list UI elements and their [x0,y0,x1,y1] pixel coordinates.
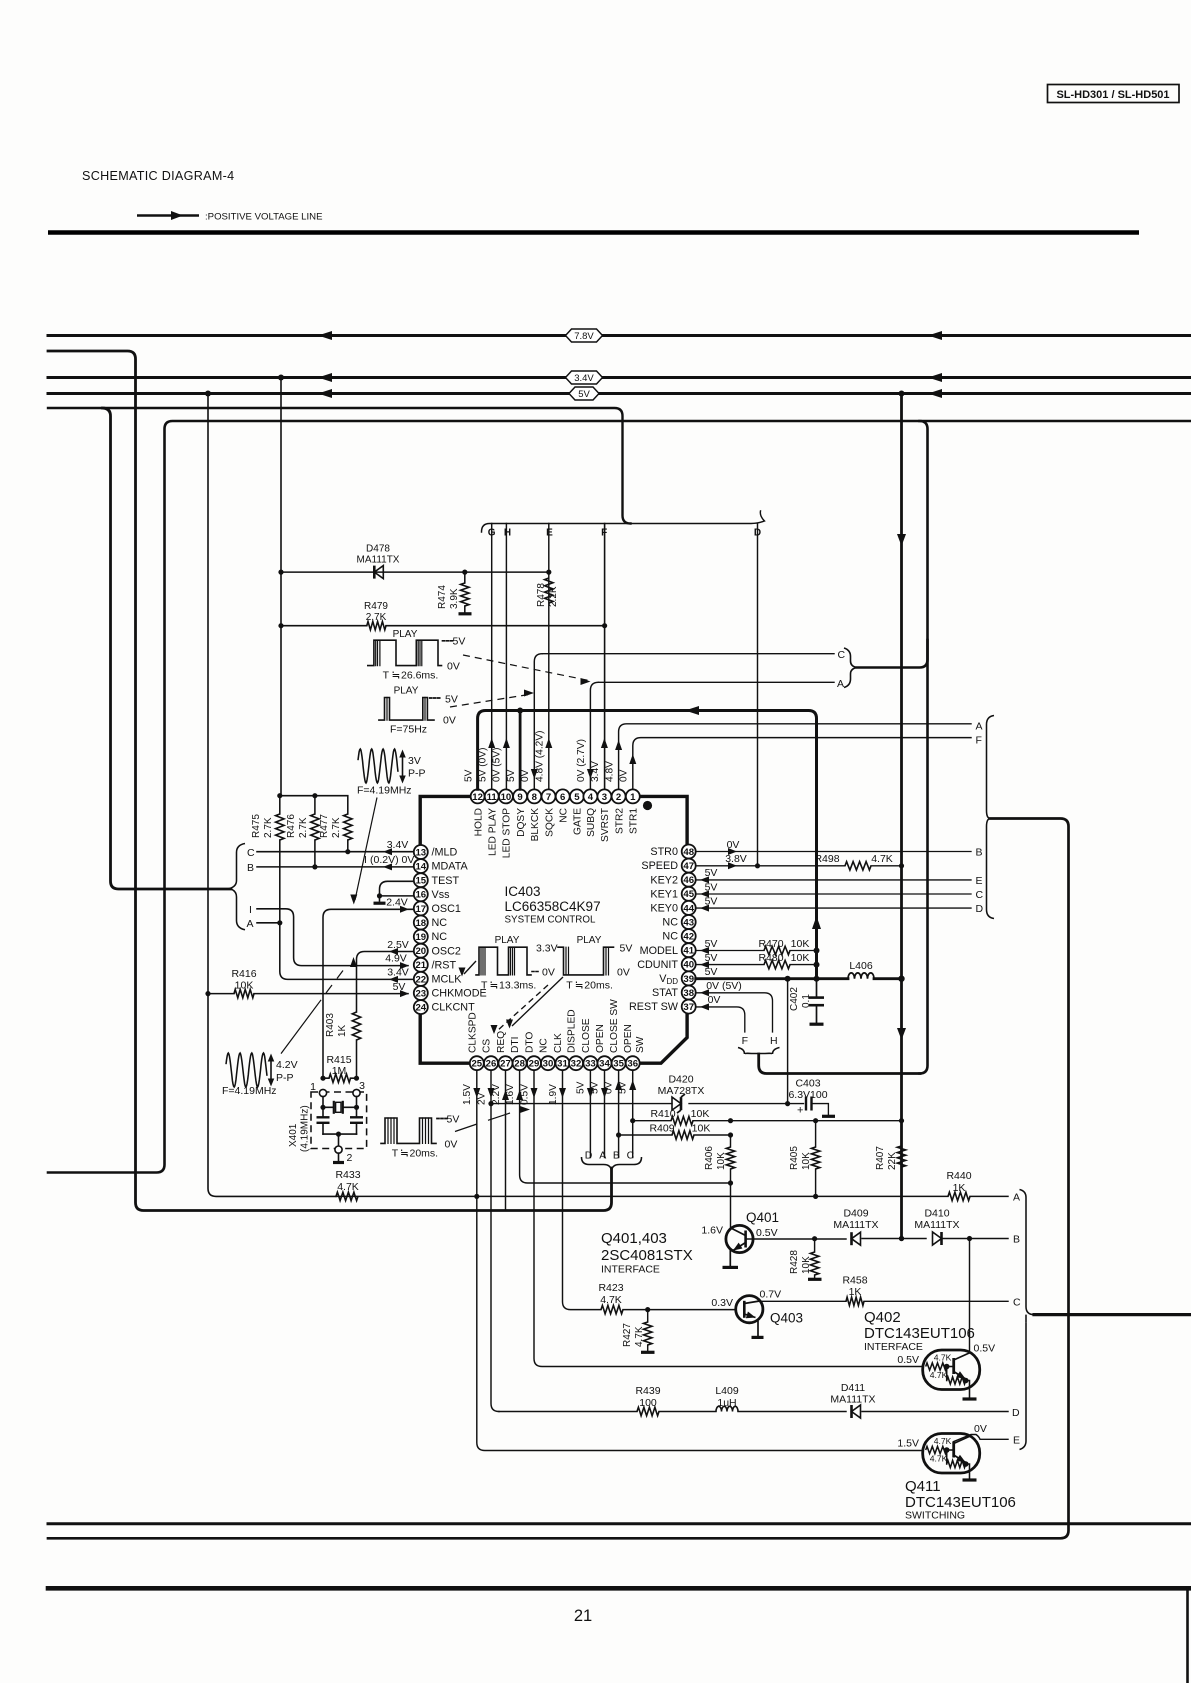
svg-text:2.2K: 2.2K [548,586,559,607]
wire dashed pointer waveform to BLKCK vertical [450,690,534,708]
svg-text:SQCK: SQCK [544,808,555,837]
resistor R479 2.7K [364,601,388,630]
wire CLKSPD pin25 vertical to R433 line [462,1070,480,1196]
svg-text:47: 47 [683,861,694,872]
svg-text:LC66358C4K97: LC66358C4K97 [505,899,601,914]
svg-text:2.7K: 2.7K [298,817,309,838]
svg-text:INTERFACE: INTERFACE [601,1264,660,1276]
svg-text:7.8V: 7.8V [574,331,594,342]
node pin 2 STR2 [612,789,626,834]
wire D420 line from CS vertical to C403 [488,1101,790,1106]
wire KEY0 pin44 line to D [696,895,984,915]
svg-text:KEY1: KEY1 [650,888,678,900]
svg-text:5V: 5V [705,895,718,907]
svg-text:16: 16 [415,890,426,901]
node pin 30 NC [539,1038,556,1070]
wire E vertical to pin 7 [545,524,552,790]
wire MCLK pin 22 line [280,923,414,983]
wire CLK pin31 vertical to R423 [548,1070,601,1309]
svg-text:LED STOP: LED STOP [502,808,513,858]
wire Q411 input from pin25 vertical [477,1196,922,1450]
svg-text:32: 32 [571,1059,582,1070]
svg-text:0V: 0V [974,1423,987,1435]
svg-text:0.5V: 0.5V [756,1227,778,1239]
resistor R410 10K [650,1108,709,1125]
svg-text:+: + [797,1105,803,1117]
svg-text:KEY2: KEY2 [650,874,678,886]
svg-text:21: 21 [415,960,426,971]
svg-text:CLKSPD: CLKSPD [467,1012,478,1053]
svg-text:34: 34 [599,1059,610,1070]
node pin 26 CS [482,1039,499,1071]
svg-text:10K: 10K [801,1152,812,1170]
wire F/H stem to thick return line [759,1054,920,1074]
svg-text:MDATA: MDATA [432,861,469,873]
svg-text:H: H [504,528,511,539]
wire pointer sine2/X401 to OSC2 corner [281,957,357,1054]
resistor R480 10K [758,952,809,969]
svg-text:24: 24 [415,1003,426,1014]
resistor R477 2.7K [319,814,352,852]
svg-text:OPEN: OPEN [623,1024,634,1053]
wire bottom rail 3 (thick) [48,1586,1191,1591]
inductor L409 1uH [715,1385,739,1412]
svg-text:PLAY: PLAY [577,935,602,946]
svg-text:R410: R410 [650,1108,675,1120]
svg-text:BLKCK: BLKCK [530,808,541,842]
node pin 31 CLK [553,1033,570,1070]
node G H E F D header line [482,511,765,539]
svg-text:STR1: STR1 [629,808,640,834]
svg-text:IC403: IC403 [505,884,541,899]
diode D478 MA111TX [357,544,400,579]
diode D411 MA111TX [830,1382,875,1418]
svg-text:0V: 0V [619,769,630,782]
svg-text:2V: 2V [477,1092,488,1105]
svg-text:10K: 10K [791,952,810,964]
node A endpoint [1013,1191,1020,1203]
diode D410 MA111TX [914,1208,959,1246]
node pin 32 DISPLED [567,1009,584,1070]
node C-B-I-A brace [230,844,256,931]
transistor Q411 DTC143EUT106 [897,1423,1008,1480]
svg-text:A: A [599,1150,606,1162]
svg-text:5V: 5V [445,694,458,706]
node pin 24 CLKCNT [414,1000,475,1014]
svg-text:6.3V100: 6.3V100 [788,1089,827,1101]
capacitor C403 6.3V100 [788,1078,835,1117]
node pin 33 CLOSE [581,1018,598,1070]
svg-text:5V: 5V [705,966,718,978]
svg-text:12: 12 [472,792,483,803]
label page number 21 [574,1607,592,1625]
svg-text:43: 43 [683,917,694,928]
svg-text:SYSTEM CONTROL: SYSTEM CONTROL [505,915,596,926]
svg-text:0V: 0V [708,994,721,1006]
svg-text:C: C [247,847,255,859]
resistor R415 1M [320,1054,359,1082]
transistor Q402 DTC143EUT106 [897,1343,995,1400]
wire REST SW pin37 line to F stub [696,994,745,1032]
svg-text:7: 7 [546,792,551,803]
svg-text:D: D [1012,1407,1020,1419]
svg-text:NC: NC [432,917,448,929]
svg-text:4.7K: 4.7K [634,1326,645,1347]
waveform sine 3V P-P F=4.19MHz [357,749,426,797]
svg-text:STAT: STAT [652,987,678,999]
wire D478 line (3.4V drop to E vertical) [278,570,551,575]
svg-text:4.7K: 4.7K [930,1370,948,1380]
svg-text:KEY0: KEY0 [650,903,678,915]
svg-text:INTERFACE: INTERFACE [864,1341,923,1353]
svg-text:2.7K: 2.7K [263,817,274,838]
title SCHEMATIC DIAGRAM-4 [82,169,234,183]
wire R409 line pin35 to R406 node [619,1132,734,1137]
svg-text:4: 4 [588,792,594,803]
node D A B C labels and bracket [582,1150,642,1173]
svg-text:13.3ms.: 13.3ms. [499,980,536,992]
svg-text:19: 19 [415,932,426,943]
wire OPEN SW pin36 vertical to DABC bracket [618,1070,637,1157]
svg-text:DQSY: DQSY [516,808,527,837]
wire CS pin26 vertical to D420 line then R439 line [477,1070,500,1411]
svg-text:33: 33 [585,1059,596,1070]
wire OSC1 pin 17 line down to X401 [323,897,414,1079]
svg-text:10K: 10K [716,1152,727,1170]
svg-text:4.2V: 4.2V [276,1059,298,1071]
svg-text:I: I [364,854,367,866]
svg-text:5: 5 [574,792,580,803]
wire Q403 collector line through R458 to C endpoint [760,1300,1009,1302]
svg-text:R478: R478 [536,583,547,607]
svg-text:MODEL: MODEL [640,945,678,957]
node pin 29 DTO [525,1032,542,1071]
wire REQ pin27 vertical to DABC thick line [491,1070,509,1209]
svg-text:Q401: Q401 [746,1210,779,1225]
svg-text:D478: D478 [366,544,390,555]
node pin 25 CLKSPD [467,1012,484,1070]
wire 5V drop x901.5 (bus to VDD and D409 line) [897,394,906,1239]
svg-text:R477: R477 [319,814,330,838]
svg-text:10: 10 [501,792,512,803]
svg-text:X401: X401 [288,1123,299,1147]
svg-text:0V: 0V [520,769,531,782]
svg-text:0V (2.7V): 0V (2.7V) [576,739,587,782]
node right brace A F B E C D [987,716,995,919]
svg-text:100: 100 [639,1397,657,1409]
capacitor C402 0.1 [789,979,824,1024]
wire R475-477 top line [277,793,348,814]
wire F vertical to pin 3 [601,524,608,790]
svg-text:5V: 5V [393,981,406,993]
svg-text:CHKMODE: CHKMODE [432,988,487,1000]
node pin 36 OPEN SW [623,1024,646,1070]
svg-text:0V: 0V [727,839,740,851]
svg-text:29: 29 [529,1059,540,1070]
svg-text:0.5V: 0.5V [897,1354,919,1366]
svg-text:0V (5V): 0V (5V) [706,980,742,992]
svg-text:36: 36 [627,1059,638,1070]
svg-text:DTC143EUT106: DTC143EUT106 [905,1494,1016,1511]
wire endpoint thick line to right edge [1034,1313,1191,1316]
node pin 40 CDUNIT [637,957,695,971]
node pin 20 OSC2 [414,944,461,958]
wire C line to pin 13 /MLD [257,839,414,855]
svg-text:5V: 5V [590,1081,601,1094]
resistor R474 3.9K [437,572,472,614]
svg-text:OPEN: OPEN [595,1024,606,1053]
svg-text:F=4.19MHz: F=4.19MHz [357,785,412,797]
wire 5V bus [48,389,1191,398]
svg-text:1K: 1K [337,1024,348,1037]
wire MODEL pin41 line through R470 [696,938,820,954]
svg-text:3.4V: 3.4V [387,839,409,851]
svg-text:10K: 10K [235,980,254,992]
svg-text:T: T [392,1148,399,1160]
svg-text:37: 37 [683,1002,694,1013]
svg-text:10K: 10K [791,938,810,950]
svg-text:14: 14 [415,862,426,873]
svg-text:R474: R474 [437,585,448,609]
wire bus4 to pin header (y408) [48,408,631,524]
svg-text:4.7K: 4.7K [600,1294,622,1306]
svg-text:27: 27 [500,1059,511,1070]
node pin 48 STR0 [650,845,695,859]
svg-text:/MLD: /MLD [432,847,458,859]
transistor Q403 [711,1288,803,1325]
svg-text:R403: R403 [325,1013,336,1037]
svg-text:10K: 10K [801,1256,812,1274]
resistor R439 100 [635,1385,660,1416]
node pin 38 STAT [652,986,696,1000]
svg-text:5V (0V): 5V (0V) [478,747,489,782]
svg-text:R423: R423 [598,1282,623,1294]
svg-text:SVRST: SVRST [600,808,611,842]
wire VDD pin39 line through L406 [696,966,905,982]
svg-text:NC: NC [662,917,678,929]
node right endpoint bracket A B C [1020,1190,1035,1315]
node C endpoint [1013,1296,1021,1308]
svg-text:D: D [976,903,984,915]
svg-text:REQ: REQ [496,1031,507,1053]
wire R479 line (3.4V drop to F vertical) [278,623,607,628]
svg-text:CLKCNT: CLKCNT [432,1002,476,1014]
svg-text:5V: 5V [620,943,633,955]
node pin 12 HOLD [471,789,485,836]
svg-text:20ms.: 20ms. [584,980,613,992]
svg-text:(4.19MHz): (4.19MHz) [300,1105,311,1152]
svg-text:2: 2 [616,792,621,803]
top border rule [48,230,1139,235]
svg-text:MCLK: MCLK [432,974,463,986]
waveform sine 4.2V P-P F=4.19MHz [222,1053,298,1097]
op-amp IC403 body outline [420,796,687,1063]
resistor R470 10K [758,938,809,955]
svg-text:R480: R480 [758,952,783,964]
node pin 16 Vss [414,887,450,901]
node pin 35 CLOSE SW [609,999,626,1070]
svg-text:5V: 5V [453,636,466,648]
svg-text:30: 30 [543,1059,554,1070]
svg-text:R440: R440 [946,1170,971,1182]
svg-text:A: A [976,721,983,733]
transistor Q401 2SC4081STX [701,1210,779,1253]
svg-text:0.1: 0.1 [801,994,812,1008]
svg-text:0V: 0V [604,1081,615,1094]
svg-text:5V: 5V [578,389,590,400]
wire STR1 pin1 to F right-line [629,735,982,790]
svg-text:L406: L406 [849,960,873,972]
svg-text:46: 46 [683,875,694,886]
svg-text:R439: R439 [635,1385,660,1397]
node pin 10 LED STOP [499,789,513,858]
svg-text:P-P: P-P [408,768,426,780]
node pin 42 NC [662,929,695,943]
svg-text:E: E [1013,1434,1020,1446]
wire Vss pin 16 line [377,893,414,898]
svg-text:A: A [1013,1191,1020,1203]
svg-text:OSC1: OSC1 [432,903,461,915]
svg-text:CS: CS [482,1039,493,1053]
svg-text:0V: 0V [447,661,460,673]
svg-text:0V (5V): 0V (5V) [492,747,503,782]
svg-text:3: 3 [602,792,607,803]
svg-text:5V: 5V [705,952,718,964]
wire A line to right bracket [598,678,844,690]
svg-text:42: 42 [683,932,694,943]
resistor R476 2.7K [286,796,319,867]
node pin 4 SUBQ [583,789,597,836]
svg-text:1.5V: 1.5V [462,1084,473,1105]
svg-text:R409: R409 [649,1122,674,1134]
node F H labels and brace [738,1035,780,1056]
svg-text:2SC4081STX: 2SC4081STX [601,1247,693,1264]
node B endpoint [1013,1233,1020,1245]
svg-text:PLAY: PLAY [495,935,520,946]
wire A line to R475/MCLK node [257,920,282,925]
svg-text:NC: NC [662,931,678,943]
svg-text:5V: 5V [576,1081,587,1094]
svg-text:C: C [627,1150,635,1162]
svg-text:DTC143EUT106: DTC143EUT106 [864,1325,975,1342]
svg-text:MA111TX: MA111TX [830,1394,875,1406]
node pin 14 MDATA [414,859,469,873]
svg-text:F=75Hz: F=75Hz [390,724,427,736]
svg-text:OSC2: OSC2 [432,945,461,957]
svg-text:B: B [247,862,254,874]
svg-text:R428: R428 [789,1250,800,1274]
svg-text:1: 1 [630,792,636,803]
node pin 19 NC [414,930,447,944]
svg-text:48: 48 [683,847,694,858]
svg-text:8: 8 [532,792,538,803]
wire I line to pin 21 /RST [257,909,409,969]
svg-text:P-P: P-P [276,1072,294,1084]
node 5V label [569,387,599,400]
svg-text:MA111TX: MA111TX [833,1219,878,1231]
svg-text:3.3V: 3.3V [536,943,558,955]
waveform PLAY T=20ms (CS/REQ) [491,935,633,1034]
wire STR0 pin48 line to B [696,839,983,859]
wire dashed pointer waveform to SUBQ corner [463,655,591,685]
model label box SL-HD301 / SL-HD501 [1048,85,1180,103]
wire TEST pin 15 line [380,881,415,896]
wire SPEED pin47 line through R498 [696,853,904,869]
svg-text:3: 3 [359,1080,365,1092]
svg-text:HOLD: HOLD [473,808,484,836]
svg-text:3V: 3V [408,755,421,767]
svg-text:C402: C402 [789,987,800,1011]
svg-text:B: B [976,847,983,859]
label Q402 DTC143EUT106 INTERFACE [864,1309,975,1353]
svg-text:R470: R470 [758,938,783,950]
label Q411 DTC143EUT106 SWITCHING [905,1478,1016,1522]
svg-text:C: C [976,889,984,901]
svg-text:44: 44 [683,903,694,914]
svg-text:Q401,403: Q401,403 [601,1230,667,1247]
svg-text:0.7V: 0.7V [760,1288,782,1300]
wire Q401 collector line (D409 line) [746,1236,1008,1241]
svg-text:45: 45 [683,889,694,900]
svg-text:1.9V: 1.9V [548,1084,559,1105]
svg-text:R475: R475 [251,814,262,838]
svg-text:REST SW: REST SW [629,1001,679,1013]
svg-text:4.7K: 4.7K [337,1181,359,1193]
node pin 47 SPEED [641,859,695,873]
node 3.4V label [566,371,603,384]
svg-text:4.9V: 4.9V [385,953,407,965]
node pin 9 DQSY [513,789,527,836]
svg-text:R406: R406 [704,1146,715,1170]
svg-text:A: A [247,918,254,930]
node pin 17 OSC1 [414,901,461,915]
svg-text:22: 22 [415,974,426,985]
node pin 11 LED PLAY [485,789,499,856]
svg-text:DTO: DTO [525,1032,536,1053]
svg-text:D410: D410 [924,1208,949,1220]
node pin 8 BLKCK [527,789,541,841]
wire thin drop x787.6 VDD to C403 [787,979,789,1104]
wire KEY2 pin46 line to E [696,867,983,887]
svg-text:D409: D409 [843,1208,868,1220]
svg-text:D: D [585,1150,593,1162]
wire B line to pin 14 MDATA [257,854,414,870]
node pin 46 KEY2 [650,873,695,887]
svg-text:MA111TX: MA111TX [357,555,400,566]
svg-text:5V: 5V [463,769,474,782]
svg-text:2.5V: 2.5V [387,939,409,951]
node pin 43 NC [662,915,695,929]
node D endpoint [1012,1407,1020,1419]
svg-text:H: H [770,1035,778,1047]
svg-text:4.7K: 4.7K [934,1353,952,1363]
svg-text:CLOSE: CLOSE [581,1018,592,1053]
wire R433/R440 line (5V drop to A endpoint) [336,1194,1008,1199]
svg-text:Q411: Q411 [905,1478,941,1495]
node pin 18 NC [414,916,447,930]
svg-text:41: 41 [683,946,694,957]
wire OPEN pin34 vertical to DABC bracket [590,1070,609,1157]
svg-text:5V: 5V [705,881,718,893]
svg-text:2.7K: 2.7K [331,817,342,838]
wire STAT pin38 line to H stub [696,980,773,1032]
svg-text:38: 38 [683,988,694,999]
wire bus to D-A-B-C return (y351 left drop x135.5) [48,351,612,1211]
svg-text:F: F [742,1035,748,1047]
node E endpoint [1013,1434,1020,1446]
svg-text:R433: R433 [335,1169,360,1181]
wire Q402 collector vertical from D410 node [969,1239,971,1353]
